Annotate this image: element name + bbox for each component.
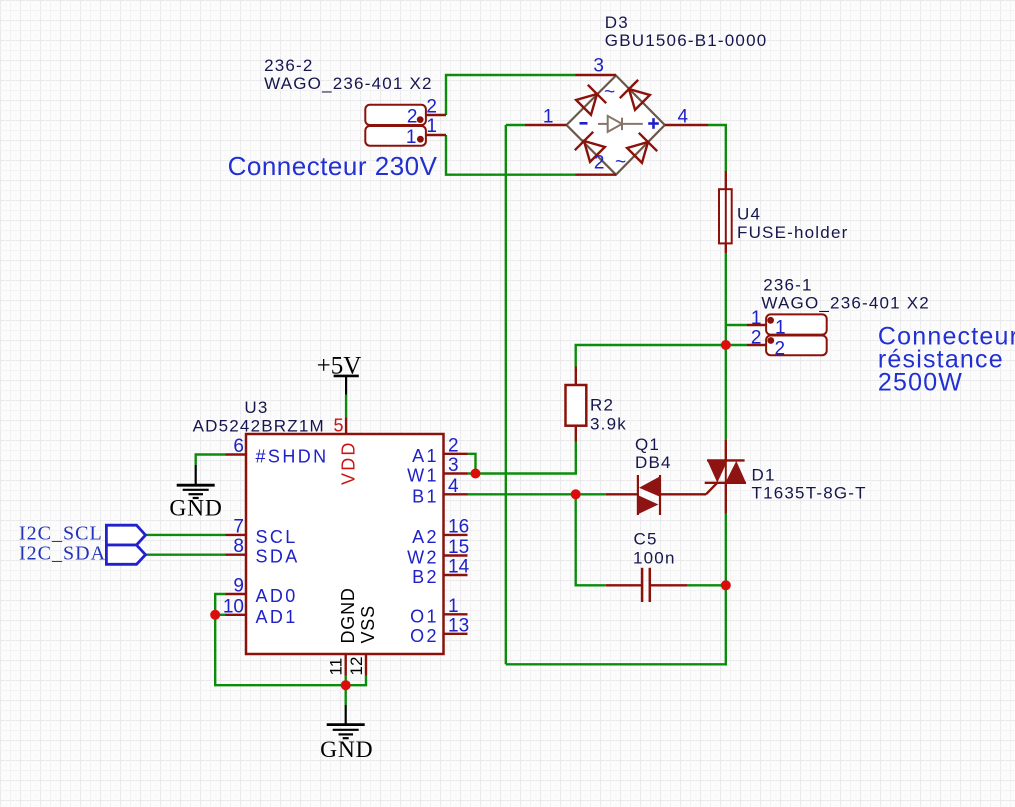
svg-text:3.9k: 3.9k: [590, 414, 627, 433]
svg-text:DB4: DB4: [635, 453, 672, 472]
junction dot AD1 node: [210, 610, 220, 620]
svg-text:VDD: VDD: [339, 440, 359, 485]
junction dot C5 right node: [721, 580, 731, 590]
svg-text:VSS: VSS: [358, 605, 378, 643]
svg-text:O1: O1: [410, 606, 439, 626]
svg-text:AD5242BRZ1M: AD5242BRZ1M: [193, 416, 325, 435]
svg-text:GND: GND: [320, 737, 373, 763]
wire bridge minus vertical rail: [505, 125, 507, 664]
junction dot A1-W1: [471, 469, 481, 479]
svg-text:10: 10: [223, 596, 244, 617]
wire C5 right to triac cathode rail: [687, 584, 725, 586]
wire SCL: [145, 534, 226, 536]
svg-text:WAGO_236-401 X2: WAGO_236-401 X2: [264, 74, 433, 93]
wire DGND pin down: [345, 676, 347, 706]
svg-text:D1: D1: [752, 466, 776, 485]
wire bridge pin1 stub link: [506, 124, 525, 126]
svg-text:W1: W1: [407, 466, 439, 486]
svg-text:SDA: SDA: [256, 547, 300, 567]
label Connecteur resistance 2500W: [878, 322, 1015, 396]
resistor R2: [566, 367, 587, 442]
svg-text:3: 3: [448, 455, 459, 476]
svg-text:1: 1: [448, 596, 459, 617]
junction dot 236-1 pin2 node: [721, 340, 731, 350]
svg-text:7: 7: [233, 516, 244, 537]
svg-text:GBU1506-B1-0000: GBU1506-B1-0000: [605, 31, 768, 50]
wire to 236-1 pin1: [726, 324, 747, 326]
svg-text:236-2: 236-2: [264, 56, 313, 75]
svg-text:236-1: 236-1: [763, 276, 812, 295]
svg-text:#SHDN: #SHDN: [256, 447, 329, 467]
fuse U4: [719, 171, 732, 253]
junction dot DGND node: [341, 680, 351, 690]
svg-text:13: 13: [448, 615, 469, 636]
svg-text:D3: D3: [605, 13, 629, 32]
svg-text:C5: C5: [634, 530, 658, 549]
IC U3 AD5242BRZ1M: [226, 417, 468, 675]
svg-text:2: 2: [426, 96, 437, 117]
svg-text:14: 14: [448, 557, 470, 578]
wire R2 bottom to W1: [468, 442, 576, 474]
svg-text:1: 1: [406, 127, 417, 148]
svg-text:2: 2: [594, 153, 605, 174]
wire +5V to VDD: [345, 395, 347, 418]
diode bottom-left of D3: [575, 132, 607, 164]
svg-text:1: 1: [543, 107, 554, 128]
svg-text:SCL: SCL: [256, 527, 298, 547]
wire triac bottom to rail: [725, 514, 727, 586]
svg-text:B2: B2: [412, 567, 439, 587]
wire B1 to diac: [468, 493, 606, 495]
junction dot B1 node: [571, 489, 581, 499]
svg-text:A1: A1: [412, 446, 439, 466]
svg-text:11: 11: [327, 658, 346, 676]
svg-text:B1: B1: [412, 486, 439, 506]
svg-text:4: 4: [448, 476, 459, 497]
svg-text:1: 1: [775, 317, 786, 338]
power +5V: [317, 352, 362, 394]
wire to 236-1 pin2: [726, 344, 747, 346]
svg-text:WAGO_236-401 X2: WAGO_236-401 X2: [761, 294, 930, 313]
svg-text:Connecteur 230V: Connecteur 230V: [228, 151, 438, 181]
connector 236-1: [747, 314, 827, 355]
wire SHDN to GND: [196, 455, 226, 466]
svg-text:U3: U3: [244, 398, 268, 417]
svg-text:2: 2: [775, 339, 786, 360]
svg-text:2: 2: [751, 328, 762, 349]
svg-text:16: 16: [448, 516, 469, 537]
wire net 236-2 pin2 to bridge pin3: [446, 75, 575, 115]
svg-text:1: 1: [751, 308, 762, 329]
svg-text:O2: O2: [410, 626, 439, 646]
svg-text:2: 2: [448, 435, 459, 456]
svg-text:1: 1: [426, 116, 437, 137]
plus sign: [648, 118, 659, 129]
svg-text:100n: 100n: [633, 548, 676, 567]
diode top-left of D3: [574, 85, 606, 117]
center diode glyph of D3: [598, 116, 643, 132]
wire bridge pin4 to fuse: [708, 125, 726, 171]
ground GND top: [169, 465, 222, 522]
svg-text:A2: A2: [412, 527, 439, 547]
minus sign: [580, 122, 588, 125]
diode top-right of D3: [620, 80, 652, 112]
svg-text:W2: W2: [407, 548, 439, 568]
diode bottom-right of D3: [625, 133, 657, 165]
svg-text:Q1: Q1: [635, 435, 660, 454]
wire AD0 AD1 loop: [215, 594, 366, 685]
svg-text:I2C_SDA: I2C_SDA: [19, 542, 106, 564]
diac Q1: [606, 475, 717, 515]
ground GND bottom: [320, 705, 373, 763]
capacitor C5: [606, 568, 688, 602]
svg-text:4: 4: [678, 107, 689, 128]
wire fuse to 236-1 pin1 and down: [725, 253, 727, 440]
svg-text:3: 3: [593, 56, 604, 77]
svg-text:12: 12: [347, 657, 366, 676]
svg-text:~: ~: [604, 82, 615, 103]
svg-text:9: 9: [233, 576, 244, 597]
svg-text:AD1: AD1: [256, 607, 298, 627]
svg-text:8: 8: [233, 536, 244, 557]
triac D1: [705, 440, 746, 514]
net flag I2C_SDA: [19, 542, 146, 564]
bridge rectifier D3: [525, 75, 708, 175]
svg-text:AD0: AD0: [256, 586, 298, 606]
svg-text:FUSE-holder: FUSE-holder: [737, 223, 848, 242]
svg-text:+5V: +5V: [317, 352, 362, 379]
svg-text:6: 6: [233, 436, 244, 457]
connector 236-2: [365, 105, 446, 146]
svg-text:DGND: DGND: [338, 587, 358, 643]
svg-text:I2C_SCL: I2C_SCL: [19, 523, 103, 545]
svg-text:U4: U4: [737, 205, 761, 224]
svg-text:15: 15: [448, 537, 469, 558]
wire A1 link to W1: [468, 454, 476, 474]
svg-text:2: 2: [407, 107, 418, 128]
svg-text:5: 5: [333, 416, 343, 436]
svg-text:~: ~: [615, 152, 626, 173]
svg-text:T1635T-8G-T: T1635T-8G-T: [752, 484, 867, 503]
svg-text:R2: R2: [590, 396, 614, 415]
wire net 236-2 pin1 to bridge pin2: [446, 135, 575, 175]
wire B1 node down to C5 left: [576, 494, 606, 585]
wire SDA: [145, 554, 226, 556]
wire bottom rail: [506, 585, 726, 664]
net flag I2C_SCL: [19, 523, 146, 546]
svg-text:GND: GND: [169, 496, 222, 522]
wire rail to R2 top: [576, 345, 726, 367]
svg-text:2500W: 2500W: [878, 369, 963, 397]
wire AD1 link: [215, 614, 225, 616]
